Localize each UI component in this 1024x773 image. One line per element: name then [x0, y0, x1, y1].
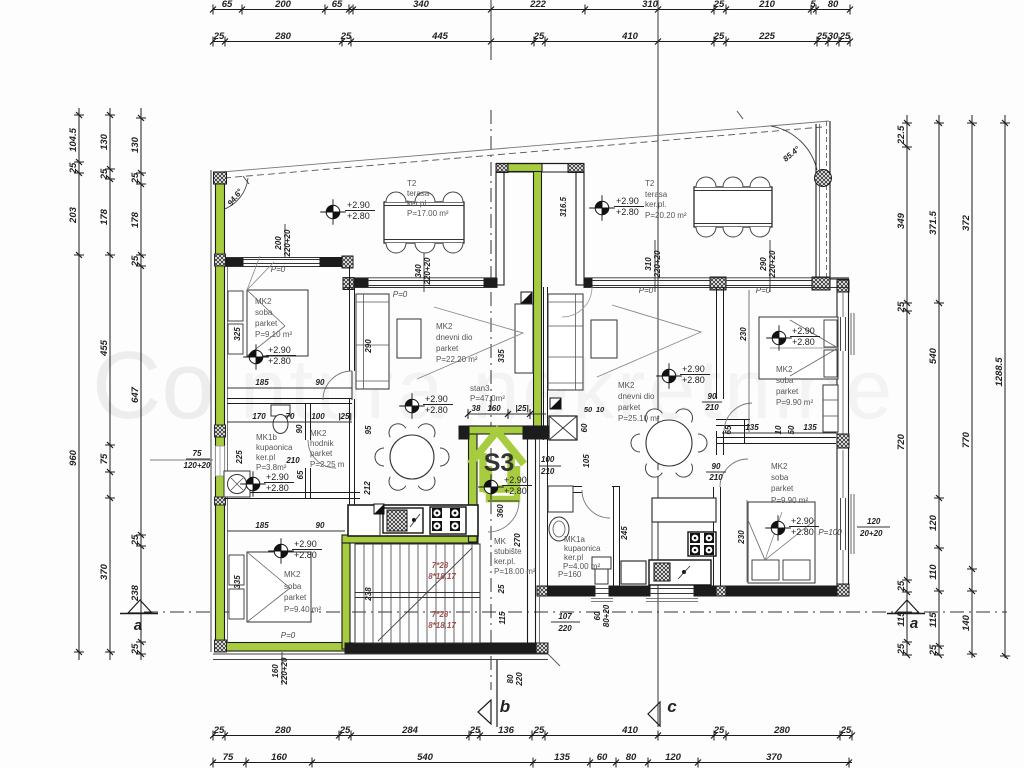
svg-text:540: 540 — [928, 347, 939, 364]
svg-text:220: 220 — [557, 624, 572, 633]
svg-text:P=100: P=100 — [818, 528, 842, 537]
window sills south — [591, 598, 613, 600]
bed bedroom1 right — [759, 317, 838, 379]
svg-text:soba: soba — [255, 308, 273, 317]
bed bedroom2 right — [748, 502, 815, 583]
svg-text:P=47,0m²: P=47,0m² — [470, 394, 505, 403]
south wall right apartment — [537, 586, 548, 596]
svg-text:290: 290 — [759, 257, 768, 272]
svg-text:115: 115 — [498, 611, 507, 624]
svg-text:P=22.20 m²: P=22.20 m² — [436, 355, 478, 364]
svg-text:T2: T2 — [645, 179, 655, 188]
svg-text:25: 25 — [533, 725, 545, 736]
chevron right living — [597, 305, 701, 377]
bathroom north wall — [227, 398, 352, 400]
bed bedroom2 left (bottom) — [247, 552, 311, 622]
svg-text:+2.90: +2.90 — [616, 196, 639, 206]
svg-text:90: 90 — [712, 462, 721, 471]
right-apt corridor/bedroom west wall — [716, 287, 718, 399]
green S3 arrow — [470, 431, 524, 492]
level marker bedroom2 right — [771, 521, 785, 535]
svg-text:75: 75 — [193, 449, 202, 458]
svg-text:185: 185 — [255, 378, 269, 387]
svg-text:140: 140 — [961, 614, 972, 631]
svg-text:P=160: P=160 — [558, 570, 582, 579]
door bedroom1 right — [724, 403, 752, 431]
section marker a left — [128, 600, 152, 613]
door right apt living arc — [562, 287, 592, 317]
door bathroom right — [582, 490, 610, 518]
svg-text:210: 210 — [708, 473, 723, 482]
svg-text:c: c — [667, 697, 677, 716]
svg-text:parket: parket — [618, 403, 641, 412]
svg-text:160: 160 — [271, 664, 280, 678]
interior dim vestibule — [468, 413, 546, 415]
svg-text:22.5: 22.5 — [896, 125, 907, 145]
svg-text:+2.90: +2.90 — [791, 516, 814, 526]
svg-text:60: 60 — [597, 752, 608, 763]
svg-text:372: 372 — [961, 214, 972, 231]
right dimension column 3 — [971, 115, 973, 658]
kitchen right stove — [688, 532, 716, 556]
level marker entry — [484, 480, 498, 494]
svg-text:135: 135 — [745, 423, 759, 432]
svg-text:25: 25 — [213, 725, 225, 736]
outer south thin wall lines — [213, 653, 548, 655]
svg-text:360: 360 — [496, 504, 505, 518]
svg-text:soba: soba — [776, 376, 794, 385]
svg-text:455: 455 — [99, 339, 110, 357]
level marker bathroom left — [246, 477, 260, 491]
svg-text:210: 210 — [285, 456, 300, 465]
right dimension column 4 — [1004, 115, 1006, 658]
section marker c — [648, 702, 660, 726]
green wall terrace divider — [534, 164, 542, 433]
angle arc left 94.6 — [222, 178, 248, 210]
east wall right apartment — [836, 281, 838, 596]
svg-text:135: 135 — [803, 423, 817, 432]
svg-text:P=2.25 m: P=2.25 m — [310, 460, 345, 469]
svg-text:25: 25 — [68, 162, 79, 174]
sofa right apartment — [548, 294, 583, 390]
bottom dimension row 2 — [213, 762, 852, 764]
east window bedroom2 — [840, 498, 842, 550]
dim line right bedrooms — [722, 432, 836, 434]
window label 160/220+20 bottom — [281, 652, 283, 685]
level marker living left — [405, 399, 419, 413]
svg-text:P=25.10 m²: P=25.10 m² — [618, 414, 660, 423]
top dimension row 1 — [213, 9, 850, 11]
svg-text:280: 280 — [274, 31, 292, 42]
kitchen left stove — [430, 507, 466, 534]
svg-text:178: 178 — [99, 208, 110, 225]
svg-text:325: 325 — [233, 327, 242, 341]
level marker terrace right — [595, 201, 609, 215]
stair hall south wall — [345, 643, 536, 653]
interior dim bedroom1 left — [227, 387, 352, 389]
svg-text:hodnik: hodnik — [310, 439, 335, 448]
svg-text:280: 280 — [773, 725, 791, 736]
svg-text:100: 100 — [541, 455, 555, 464]
section marker b — [478, 700, 491, 724]
svg-text:soba: soba — [771, 473, 789, 482]
svg-text:25: 25 — [99, 168, 110, 180]
svg-text:245: 245 — [620, 526, 629, 541]
svg-text:135: 135 — [554, 752, 571, 763]
kitchen left counter — [348, 505, 478, 536]
level marker terrace left — [326, 205, 340, 219]
svg-text:+2.90: +2.90 — [268, 345, 291, 355]
kitchen left sink — [383, 508, 423, 533]
svg-text:105: 105 — [582, 454, 591, 468]
svg-text:+2.80: +2.80 — [268, 356, 291, 366]
stairs — [355, 544, 480, 643]
bathroom right shower — [548, 486, 573, 512]
sofa left apartment — [356, 294, 389, 389]
svg-text:310: 310 — [642, 0, 659, 10]
svg-text:100: 100 — [311, 412, 325, 421]
green entry door frame — [489, 466, 517, 499]
svg-text:MK2: MK2 — [284, 570, 301, 579]
svg-text:50: 50 — [787, 425, 796, 434]
svg-text:dnevni dio: dnevni dio — [436, 333, 473, 342]
right dimension column 2 — [938, 115, 940, 655]
svg-text:80+20: 80+20 — [602, 604, 611, 627]
svg-text:+2.80: +2.80 — [425, 405, 448, 415]
svg-text:+2.80: +2.80 — [294, 550, 317, 560]
svg-text:25: 25 — [928, 644, 939, 656]
right-apt bedroom divider wall — [716, 437, 836, 439]
shaft X box — [549, 416, 577, 440]
left dimension column 1 — [78, 108, 80, 660]
svg-text:160: 160 — [487, 404, 501, 413]
svg-text:95: 95 — [364, 425, 373, 434]
left dimension column 3 — [140, 108, 142, 660]
svg-text:8*18,17: 8*18,17 — [428, 572, 456, 581]
corner symbol corridor right — [550, 398, 561, 409]
svg-text:120: 120 — [928, 514, 939, 531]
svg-text:120: 120 — [867, 517, 881, 526]
terrace divider column walls — [496, 164, 508, 173]
kitchen right lower counter + sink — [621, 561, 646, 584]
corner symbol living1 — [521, 292, 532, 303]
svg-text:280: 280 — [274, 725, 292, 736]
wall top-left corner hatch — [214, 172, 227, 184]
svg-text:ker.pl.: ker.pl. — [494, 557, 515, 566]
svg-text:P=9.10 m²: P=9.10 m² — [255, 330, 292, 339]
svg-text:210: 210 — [540, 467, 555, 476]
svg-text:+2.80: +2.80 — [792, 337, 815, 347]
svg-text:25: 25 — [497, 584, 506, 594]
kitchen right upper counter — [652, 498, 716, 522]
left wall junction hatches — [215, 254, 226, 266]
living-left north wall — [343, 278, 354, 290]
svg-text:310: 310 — [644, 257, 653, 271]
svg-text:270: 270 — [513, 533, 522, 548]
svg-text:25: 25 — [816, 31, 828, 42]
svg-text:a: a — [134, 617, 142, 634]
window label 340/220+20 — [423, 246, 425, 292]
svg-text:P=0: P=0 — [281, 631, 296, 640]
svg-text:25: 25 — [713, 31, 725, 42]
svg-text:P=9.40 m²: P=9.40 m² — [284, 605, 321, 614]
svg-text:335: 335 — [233, 575, 242, 589]
svg-text:60: 60 — [580, 423, 589, 432]
svg-text:MK2: MK2 — [255, 297, 272, 306]
svg-text:stubište: stubište — [494, 547, 522, 556]
svg-text:316.5: 316.5 — [559, 196, 568, 217]
terrace table left — [384, 202, 464, 243]
svg-text:parket: parket — [436, 344, 459, 353]
svg-text:ker.pl.: ker.pl. — [407, 199, 428, 208]
svg-text:25: 25 — [130, 643, 141, 655]
svg-text:25: 25 — [469, 725, 481, 736]
svg-text:P=3.8m²: P=3.8m² — [256, 463, 287, 472]
coffee table right — [591, 320, 617, 358]
chevron left living — [417, 307, 523, 379]
svg-text:+2.90: +2.90 — [266, 472, 289, 482]
svg-text:P=20.20 m²: P=20.20 m² — [645, 211, 687, 220]
svg-text:50: 50 — [584, 405, 593, 414]
svg-text:+2.80: +2.80 — [347, 211, 370, 221]
svg-text:25: 25 — [839, 31, 851, 42]
svg-text:7*28: 7*28 — [432, 561, 449, 570]
svg-text:647: 647 — [130, 386, 141, 403]
svg-text:ker.pl: ker.pl — [256, 453, 275, 462]
TV cabinet S3 — [515, 304, 533, 373]
svg-text:290: 290 — [364, 339, 373, 354]
svg-text:parket: parket — [771, 484, 794, 493]
svg-text:a: a — [910, 615, 918, 632]
window label 290/220+20 — [769, 240, 771, 292]
section line a-a horizontal — [144, 611, 1007, 613]
svg-text:185: 185 — [255, 521, 269, 530]
svg-text:370: 370 — [99, 563, 110, 580]
svg-text:90: 90 — [316, 378, 325, 387]
svg-text:stan3: stan3 — [470, 384, 490, 393]
svg-text:445: 445 — [431, 31, 449, 42]
svg-text:25: 25 — [130, 255, 141, 267]
interior wall S3 bedroom/hall east x=349-355 — [349, 266, 351, 371]
bathroom S3 toilet — [271, 405, 290, 416]
svg-text:MK1a: MK1a — [564, 535, 585, 544]
svg-text:770: 770 — [961, 431, 972, 448]
svg-text:136: 136 — [498, 725, 515, 736]
svg-text:+2.80: +2.80 — [791, 527, 814, 537]
level marker bedroom1 left — [249, 350, 263, 364]
east window bedroom1 — [840, 317, 842, 351]
interior dim bathroom — [227, 421, 352, 423]
wardrobe right bedroom1 — [823, 385, 838, 432]
svg-text:210: 210 — [758, 0, 776, 10]
bathroom S3 washing machine — [224, 471, 250, 497]
svg-text:80: 80 — [506, 674, 515, 683]
svg-text:25: 25 — [213, 31, 225, 42]
svg-text:25: 25 — [130, 534, 141, 546]
svg-text:20+20: 20+20 — [859, 529, 883, 538]
svg-text:90: 90 — [295, 424, 304, 433]
living north wall (both apartments) y=278-287 — [584, 279, 592, 288]
svg-text:25: 25 — [713, 0, 725, 10]
svg-text:+2.80: +2.80 — [504, 486, 527, 496]
svg-text:130: 130 — [130, 136, 141, 153]
terrace table right — [694, 187, 772, 227]
svg-text:ker.pl: ker.pl — [564, 553, 583, 562]
svg-text:ker.pl.: ker.pl. — [645, 200, 666, 209]
svg-text:720: 720 — [896, 433, 907, 450]
svg-text:MK2: MK2 — [618, 381, 635, 390]
dining table right — [646, 420, 692, 466]
svg-text:10: 10 — [774, 425, 783, 434]
svg-text:P=0: P=0 — [271, 265, 286, 274]
right dimension column 1 — [906, 115, 908, 655]
door bedroom1 left — [323, 371, 352, 400]
svg-text:130: 130 — [99, 133, 110, 150]
bottom dimension row 1 — [213, 735, 852, 737]
svg-text:+2.80: +2.80 — [682, 375, 705, 385]
left dimension column 2 — [109, 108, 111, 660]
green wall vestibule north — [469, 426, 547, 434]
level marker bedroom1 right — [772, 331, 786, 345]
svg-text:230: 230 — [737, 530, 746, 545]
svg-text:P=0: P=0 — [393, 290, 408, 299]
svg-text:|25|: |25| — [515, 404, 528, 413]
svg-text:P=18.00 m²: P=18.00 m² — [494, 567, 536, 576]
bedroom1 north wall — [226, 258, 243, 267]
interior dim bedroom2 left — [227, 530, 345, 532]
svg-text:+2.90: +2.90 — [425, 394, 448, 404]
svg-text:P=0: P=0 — [756, 286, 771, 295]
window label 200/220+20 — [284, 224, 286, 258]
svg-text:225: 225 — [758, 31, 776, 42]
svg-text:220+20: 220+20 — [653, 250, 662, 278]
svg-text:T2: T2 — [407, 179, 417, 188]
svg-text:parket: parket — [310, 449, 333, 458]
interior dims right apartment — [748, 290, 750, 432]
svg-text:25: 25 — [533, 31, 545, 42]
svg-text:65: 65 — [724, 425, 733, 434]
svg-text:soba: soba — [284, 582, 302, 591]
svg-text:65: 65 — [222, 0, 233, 10]
outer wall left thin line — [210, 170, 212, 652]
svg-text:170: 170 — [252, 412, 266, 421]
svg-text:60: 60 — [593, 611, 602, 620]
stair landing east wall — [527, 439, 529, 645]
green wall stair east vertical — [342, 543, 350, 649]
svg-text:25: 25 — [340, 31, 352, 42]
svg-text:335: 335 — [497, 349, 506, 363]
svg-text:25: 25 — [339, 725, 351, 736]
svg-text:30: 30 — [828, 31, 839, 42]
svg-text:107: 107 — [558, 612, 572, 621]
green wall vestibule west — [469, 426, 478, 542]
door bathroom left — [308, 440, 336, 468]
green wall bottom (S3 outline south) — [216, 643, 351, 652]
section marker a right — [895, 600, 919, 613]
svg-text:+2.90: +2.90 — [294, 539, 317, 549]
svg-text:S3: S3 — [484, 449, 515, 477]
top dimension row 2 — [213, 41, 850, 43]
svg-text:terasa: terasa — [407, 189, 430, 198]
svg-text:parket: parket — [255, 319, 278, 328]
coffee table left — [397, 319, 421, 358]
svg-text:203: 203 — [68, 206, 79, 224]
svg-text:220+20: 220+20 — [283, 229, 292, 257]
svg-text:238: 238 — [130, 584, 141, 602]
right-apt west wall lower — [543, 287, 545, 440]
svg-text:340: 340 — [414, 264, 423, 278]
svg-text:+2.80: +2.80 — [266, 483, 289, 493]
level marker bedroom2 left — [274, 544, 288, 558]
svg-text:MK2: MK2 — [776, 365, 793, 374]
door bedroom2 right — [720, 459, 748, 487]
svg-text:|25|: |25| — [338, 412, 351, 421]
svg-text:120+20: 120+20 — [184, 461, 211, 470]
svg-text:25: 25 — [713, 725, 725, 736]
svg-text:90: 90 — [316, 521, 325, 530]
svg-text:178: 178 — [130, 211, 141, 228]
svg-text:284: 284 — [401, 725, 419, 736]
svg-text:230: 230 — [739, 327, 748, 342]
svg-text:160: 160 — [271, 752, 288, 763]
svg-text:38: 38 — [472, 404, 481, 413]
svg-text:340: 340 — [413, 0, 430, 10]
svg-text:960: 960 — [68, 449, 79, 466]
svg-text:115: 115 — [928, 612, 939, 628]
plot boundary solid oblique — [222, 121, 829, 172]
bathroom east wall — [305, 404, 307, 440]
svg-text:+2.80: +2.80 — [616, 207, 639, 217]
vestibule east wall black — [523, 426, 548, 439]
terrace right east wall — [815, 124, 817, 285]
svg-text:238: 238 — [364, 587, 373, 602]
angle arc right 85.4 — [771, 126, 817, 170]
svg-text:7*28: 7*28 — [432, 610, 449, 619]
svg-text:MK2: MK2 — [771, 462, 788, 471]
svg-text:kupaonica: kupaonica — [256, 443, 293, 452]
svg-text:410: 410 — [621, 31, 639, 42]
svg-text:8*18,17: 8*18,17 — [428, 621, 456, 630]
svg-text:110: 110 — [928, 564, 939, 580]
svg-text:212: 212 — [363, 481, 372, 496]
svg-text:dnevni dio: dnevni dio — [618, 392, 655, 401]
svg-text:349: 349 — [896, 212, 907, 229]
svg-text:75: 75 — [99, 453, 110, 464]
svg-text:225: 225 — [235, 450, 244, 465]
corner symbol kitchen — [374, 504, 384, 514]
svg-text:220+20: 220+20 — [768, 250, 777, 278]
svg-text:MK2: MK2 — [436, 322, 453, 331]
svg-text:+2.90: +2.90 — [792, 326, 815, 336]
plot boundary dashed oblique — [224, 127, 822, 178]
svg-text:P=17.00 m²: P=17.00 m² — [407, 209, 449, 218]
svg-text:5: 5 — [810, 0, 816, 10]
svg-text:P=9.90 m²: P=9.90 m² — [771, 496, 808, 505]
svg-text:b: b — [500, 697, 510, 716]
green wall terrace divider top — [503, 164, 542, 172]
window label 310/220+20 — [654, 240, 656, 292]
svg-text:65: 65 — [296, 470, 305, 479]
svg-text:210: 210 — [704, 403, 719, 412]
svg-text:MK1b: MK1b — [256, 433, 277, 442]
svg-text:220: 220 — [515, 672, 524, 687]
svg-text:200: 200 — [274, 0, 292, 10]
svg-text:75: 75 — [223, 752, 234, 763]
svg-text:+2.90: +2.90 — [347, 200, 370, 210]
svg-text:P=0: P=0 — [639, 286, 654, 295]
svg-text:70: 70 — [286, 412, 295, 421]
svg-text:220+20: 220+20 — [280, 657, 289, 685]
